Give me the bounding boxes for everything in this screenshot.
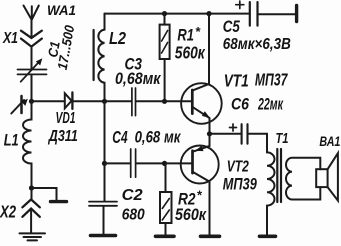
svg-text:0,68мк: 0,68мк: [115, 70, 162, 88]
capacitor C2: [104, 163, 106, 200]
svg-text:560к: 560к: [175, 205, 207, 224]
wire X2 to earth: [30, 209, 32, 233]
capacitor C1 (variable): [18, 62, 47, 82]
svg-text:Д311: Д311: [47, 128, 78, 145]
resistor R1: [164, 14, 166, 25]
wire antenna to X1: [31, 20, 33, 39]
wire node to VD1: [32, 100, 64, 102]
wire C1 to node: [31, 74, 33, 101]
connector X1: [21, 31, 42, 47]
svg-text:68мк×6,3В: 68мк×6,3В: [223, 36, 291, 53]
svg-text:X1: X1: [2, 30, 18, 47]
resistor R2: [165, 163, 167, 192]
earth ground: [20, 233, 46, 240]
speaker BA1: [316, 169, 327, 187]
chassis bar (T1 primary): [260, 235, 276, 239]
transformer T1 core: [277, 149, 281, 202]
inductor L1: [23, 101, 32, 188]
trimmer plate and tuning arrow of L1: [20, 96, 23, 113]
chassis bar (VT2 collector): [201, 235, 220, 239]
capacitor C6 (electrolytic): [210, 133, 241, 135]
wire C4 left: [105, 162, 130, 164]
svg-text:C6: C6: [231, 95, 249, 114]
node (tank top): [29, 99, 34, 104]
node (L2 bottom): [102, 99, 107, 104]
wire VD1 to L2 node: [72, 100, 104, 102]
svg-text:VT2: VT2: [227, 159, 249, 176]
svg-text:ВА1: ВА1: [319, 133, 340, 149]
svg-text:560к: 560к: [175, 42, 206, 62]
wire C3 left: [105, 100, 132, 102]
svg-text:22мк: 22мк: [257, 96, 284, 114]
node (C4 left): [102, 161, 107, 166]
svg-text:Т1: Т1: [276, 131, 289, 147]
wire to chassis stub: [32, 188, 57, 200]
node A (emitters junction): [207, 131, 212, 136]
wire C4 to VT2 base: [137, 162, 192, 164]
svg-text:C2: C2: [122, 187, 143, 204]
svg-text:L2: L2: [109, 28, 126, 48]
transformer T1 secondary and speaker wires: [286, 158, 320, 200]
chassis bar (C2): [91, 234, 116, 238]
svg-text:VT1: VT1: [224, 71, 249, 91]
inductor L2 with core: [92, 30, 94, 80]
capacitor C3: [132, 88, 136, 116]
node (R2 top): [162, 161, 167, 166]
transformer T1 primary: [267, 134, 275, 235]
chassis bar (R2): [156, 235, 175, 239]
chassis bar (C5 right): [295, 5, 298, 21]
capacitor C5 (electrolytic): [209, 13, 249, 15]
svg-text:C5: C5: [223, 17, 240, 36]
wire L2 node down to C4 node: [104, 101, 106, 163]
wire X1 to C1: [31, 47, 33, 69]
transistor VT2: [181, 146, 219, 184]
top rail wire: [105, 13, 210, 15]
wire node to X2: [31, 188, 33, 199]
svg-text:680: 680: [122, 206, 145, 223]
node (R1 top): [162, 11, 167, 16]
wire C3 to VT1 base: [136, 100, 191, 102]
antenna WA1: [24, 6, 39, 20]
svg-text:0,68 мк: 0,68 мк: [135, 127, 182, 146]
transistor VT1: [181, 83, 222, 124]
svg-text:WA1: WA1: [47, 2, 76, 18]
node (L1 bottom): [29, 185, 34, 190]
svg-text:C4: C4: [112, 127, 127, 147]
svg-text:МП37: МП37: [255, 70, 288, 90]
connector X2: [22, 199, 39, 216]
node (VT1 base): [162, 99, 167, 104]
svg-text:VD1: VD1: [56, 110, 76, 127]
node (VT1 collector / C5): [206, 11, 211, 16]
diode VD1: [65, 93, 72, 108]
svg-text:МП39: МП39: [223, 174, 257, 193]
chassis bar (near X2): [51, 200, 67, 203]
capacitor C4: [131, 149, 136, 177]
svg-text:X2: X2: [0, 202, 16, 222]
svg-text:L1: L1: [4, 131, 19, 150]
